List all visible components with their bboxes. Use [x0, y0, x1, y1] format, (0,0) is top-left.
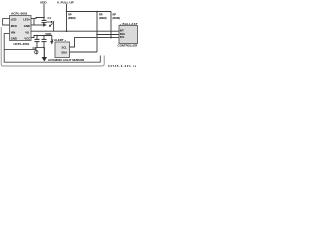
ground return wire (inner outline from U1 pin to rail) [4, 34, 100, 63]
node SCL junction [110, 37, 112, 39]
input loop wire (LED pins) [3, 19, 10, 25]
resistor R3 (REM) [111, 12, 120, 38]
node SDA junction [96, 34, 98, 36]
node output marks [47, 21, 54, 31]
svg-text:CONTROLLER: CONTROLLER [118, 44, 138, 48]
resistor R1 (REM) [66, 12, 76, 33]
capacitor C1 [42, 16, 52, 25]
svg-text:SDA: SDA [120, 33, 125, 36]
svg-text:ACS38600 LIGHT SENSOR: ACS38600 LIGHT SENSOR [48, 58, 84, 62]
svg-text:V_PULL-UP: V_PULL-UP [57, 0, 74, 4]
ground arrow [42, 48, 47, 62]
node VDD junction [43, 17, 45, 19]
capacitor C3 [42, 35, 47, 49]
resistor R2 (REM) [96, 11, 106, 52]
svg-text:VDD: VDD [40, 0, 47, 4]
svg-text:SCL: SCL [120, 36, 125, 39]
wire VDD to U1 pin1 [31, 18, 44, 19]
VDD drop arrow into U2 [50, 36, 53, 45]
svg-text:ACPL-0601: ACPL-0601 [11, 12, 28, 16]
V_PULL-UP supply [57, 0, 74, 12]
wire SCL [70, 38, 120, 47]
net VO wire [31, 30, 119, 32]
wire pin1 drop to gnd line [33, 19, 35, 25]
svg-text:HCPL-2061: HCPL-2061 [14, 42, 30, 46]
wire SDA to ballast [97, 34, 119, 36]
svg-text:INT: INT [120, 29, 125, 32]
capacitor C2 [33, 35, 40, 50]
ballast controller U3 [118, 22, 138, 48]
wire SDA [70, 51, 98, 53]
optocoupler U1 [10, 12, 32, 41]
light sensor U2 [52, 38, 70, 57]
VDD rail (sensor supply) [31, 32, 52, 37]
VDD supply symbol [40, 0, 47, 20]
gnd arrow wire from U1 pin2 [31, 23, 47, 27]
fixture enclosure (outer rounded box) [1, 27, 104, 66]
svg-text:VDD: VDD [45, 32, 51, 36]
pull-up bus wire [67, 11, 112, 13]
C2 value label [35, 50, 38, 54]
wire gnd branch to caps [4, 48, 44, 50]
